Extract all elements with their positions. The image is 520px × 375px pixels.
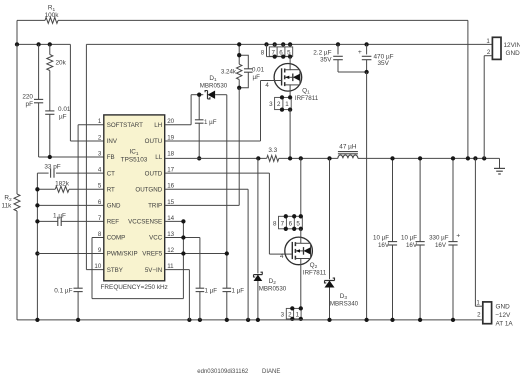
- wire: input cap return drop: [366, 72, 368, 320]
- svg-text:17: 17: [167, 167, 174, 174]
- svg-text:8: 8: [98, 231, 102, 238]
- svg-text:2: 2: [487, 49, 491, 56]
- svg-text:IRF7811: IRF7811: [303, 270, 327, 277]
- wire: 12VIN pin 2 to GND line: [484, 56, 492, 159]
- capacitor 2.2 uF 35V: [313, 44, 366, 72]
- svg-text:4: 4: [280, 253, 284, 260]
- svg-text:REF: REF: [107, 219, 120, 226]
- svg-text:6: 6: [98, 199, 102, 206]
- svg-text:1: 1: [486, 38, 490, 45]
- svg-text:OUTU: OUTU: [145, 138, 163, 145]
- svg-text:OUTD: OUTD: [145, 170, 163, 177]
- svg-text:1 µF: 1 µF: [232, 288, 245, 295]
- svg-text:VREF5: VREF5: [142, 251, 163, 258]
- IC1 left pin numbers: [94, 118, 101, 270]
- svg-text:DIANE: DIANE: [262, 369, 280, 375]
- svg-text:LH: LH: [154, 122, 162, 129]
- junction dot TRIP network bottom: [237, 86, 241, 90]
- junction dot input cap return: [364, 70, 368, 74]
- svg-text:13: 13: [167, 231, 174, 238]
- svg-text:LL: LL: [155, 154, 162, 161]
- capacitor 33 pF (CT): [37, 164, 103, 178]
- svg-text:OUTGND: OUTGND: [135, 187, 162, 194]
- junction dots on 12V rail: [237, 42, 369, 46]
- wire: switch node to Q2 drain: [300, 158, 302, 216]
- svg-text:−12V: −12V: [495, 312, 511, 319]
- svg-text:µF: µF: [253, 74, 261, 81]
- junction dot TRIP network top: [237, 53, 241, 57]
- svg-text:9: 9: [98, 247, 102, 254]
- svg-text:+: +: [358, 49, 362, 56]
- svg-text:20: 20: [167, 118, 174, 125]
- wire: VREF5 line: [165, 253, 227, 255]
- Q1 drain junction dots: [273, 54, 293, 58]
- wire: FB line: [39, 156, 104, 158]
- wire: STBY to 12V rail: [86, 44, 103, 269]
- junction dots analog ground: [35, 187, 39, 256]
- svg-text:100k: 100k: [45, 12, 60, 19]
- wire: PWM/SKIP line: [37, 253, 103, 255]
- svg-text:3.3: 3.3: [268, 147, 277, 154]
- Q2 pin number boxes 8 7 6 5: [273, 216, 302, 229]
- svg-text:8: 8: [261, 49, 265, 56]
- svg-text:MBR0530: MBR0530: [259, 285, 287, 292]
- Q2 drain lead: [300, 229, 302, 237]
- svg-text:330 µF: 330 µF: [429, 235, 449, 242]
- Q1 pin number boxes 3 2 1: [269, 97, 291, 109]
- svg-text:AT 1A: AT 1A: [496, 321, 514, 328]
- wire: GND pin line: [37, 204, 103, 206]
- capacitor 10 uF 16V (second): [401, 158, 425, 320]
- IC1 frequency note: [101, 284, 168, 291]
- svg-text:1: 1: [476, 300, 480, 307]
- svg-text:GND: GND: [496, 304, 511, 311]
- wire: COMP to VREF5 net: [92, 221, 183, 298]
- svg-text:edn030109di31162: edn030109di31162: [197, 369, 249, 375]
- Q1 pin number boxes 8 7 6 5: [261, 47, 293, 56]
- Q2 gate pin number 4: [280, 253, 284, 260]
- svg-text:IRF7811: IRF7811: [295, 95, 319, 102]
- junction dots on -12V rail: [35, 318, 455, 322]
- wire: -12V sense line from output to R1: [17, 20, 468, 158]
- svg-text:CT: CT: [107, 170, 115, 177]
- capacitor 0.1 uF (softstart): [54, 287, 82, 320]
- svg-text:10 µF: 10 µF: [401, 235, 417, 242]
- wire: VREF5 decoupling drop: [226, 254, 228, 289]
- junction dot FB/0.01uF: [48, 155, 52, 159]
- svg-text:15: 15: [167, 199, 174, 206]
- svg-text:182k: 182k: [55, 181, 70, 188]
- svg-text:3.24k: 3.24k: [221, 69, 237, 76]
- svg-text:20k: 20k: [56, 60, 67, 67]
- svg-text:COMP: COMP: [107, 235, 126, 242]
- svg-text:1: 1: [285, 101, 289, 108]
- svg-text:PWM/SKIP: PWM/SKIP: [107, 251, 138, 258]
- svg-text:5: 5: [296, 220, 300, 227]
- junction dots VCCSENSE/VCC/VREF5 tie: [181, 219, 229, 255]
- resistor 182k (RT): [37, 181, 103, 193]
- resistor 3.3: [267, 147, 279, 161]
- svg-text:STBY: STBY: [107, 267, 123, 274]
- connector J2 output GND/-12V: [476, 300, 513, 328]
- resistor R1 100k: [45, 5, 60, 24]
- junction dots on GND line: [390, 156, 486, 160]
- svg-text:pF: pF: [26, 101, 34, 108]
- Q1 gate pin number 4: [265, 82, 269, 89]
- svg-text:VCCSENSE: VCCSENSE: [128, 219, 162, 226]
- svg-text:5V−IN: 5V−IN: [145, 267, 162, 274]
- svg-text:35V: 35V: [320, 57, 332, 64]
- IC1 TPS5103 body: [104, 115, 165, 281]
- capacitor 1 uF (REF): [37, 213, 103, 227]
- capacitor 220 pF: [22, 44, 43, 157]
- svg-text:MBRS340: MBRS340: [330, 300, 359, 307]
- svg-text:2: 2: [277, 101, 281, 108]
- Q2 pin number boxes 3 2 1: [281, 308, 301, 319]
- svg-text:4: 4: [265, 82, 269, 89]
- junction dots on INV node rail: [15, 42, 52, 46]
- Q2 source junction dots: [290, 306, 303, 321]
- wire: analog ground vertical: [36, 173, 38, 320]
- svg-text:12VIN: 12VIN: [504, 42, 520, 49]
- svg-text:19: 19: [167, 134, 174, 141]
- wire: INV node rail: [17, 44, 104, 141]
- svg-text:MBR0530: MBR0530: [200, 82, 228, 89]
- svg-text:5: 5: [98, 183, 102, 190]
- wire: 12V input rail: [86, 43, 492, 45]
- inductor 47 uH: [338, 143, 358, 158]
- transistor Q1 IRF7811 pin stubs top: [267, 44, 291, 56]
- svg-text:16V: 16V: [435, 242, 447, 249]
- svg-text:GND: GND: [107, 203, 121, 210]
- wire: LH bootstrap node: [165, 95, 204, 125]
- svg-text:220: 220: [22, 94, 33, 101]
- svg-text:14: 14: [167, 215, 174, 222]
- svg-text:7: 7: [98, 215, 102, 222]
- capacitor 470 uF 35V polarized: [358, 44, 394, 72]
- svg-text:0.01: 0.01: [252, 67, 265, 74]
- wire: D1 anode to VREF5: [226, 95, 228, 254]
- wire: VCC decoupling: [165, 238, 200, 289]
- resistor 20k: [47, 44, 67, 111]
- svg-text:1 µF: 1 µF: [53, 213, 66, 220]
- svg-text:GND: GND: [506, 50, 520, 57]
- svg-text:47 µH: 47 µH: [339, 143, 357, 150]
- svg-text:TPS5103: TPS5103: [121, 157, 148, 164]
- Q1 drain lead: [289, 57, 291, 64]
- wire: 5V-IN to -12V rail: [165, 270, 190, 320]
- wire: TRIP line: [165, 88, 240, 206]
- IC1 left pin labels: [107, 122, 143, 274]
- svg-text:16V: 16V: [406, 242, 418, 249]
- svg-text:11k: 11k: [2, 203, 13, 210]
- resistor R2 11k: [2, 44, 21, 320]
- diode D3 MBRS340: [325, 158, 359, 320]
- capacitor 1 uF (VCC): [196, 288, 218, 320]
- svg-text:16V: 16V: [378, 242, 390, 249]
- svg-text:11: 11: [167, 263, 174, 270]
- svg-text:VCC: VCC: [149, 235, 163, 242]
- svg-text:+: +: [456, 233, 460, 240]
- svg-text:1 µF: 1 µF: [205, 288, 218, 295]
- svg-text:INV: INV: [107, 138, 118, 145]
- capacitor 330 uF 16V polarized: [429, 158, 460, 320]
- svg-text:8: 8: [273, 220, 277, 227]
- diode D2 MBR0530: [254, 158, 287, 320]
- wire: OUTU to Q1 gate: [165, 81, 275, 142]
- svg-text:SOFTSTART: SOFTSTART: [107, 122, 143, 129]
- IC1 right pin labels: [128, 122, 163, 274]
- svg-text:6: 6: [289, 220, 293, 227]
- svg-text:FB: FB: [107, 154, 115, 161]
- capacitor 0.01 uF (FB): [45, 106, 71, 157]
- svg-text:10: 10: [94, 263, 101, 270]
- svg-text:3: 3: [269, 101, 273, 108]
- svg-text:1 µF: 1 µF: [204, 119, 217, 126]
- wire: Q1 source to switch node: [289, 110, 291, 159]
- wire: LL / switch node line: [165, 157, 500, 159]
- earth ground symbol: [494, 158, 505, 174]
- svg-text:7: 7: [281, 220, 285, 227]
- Q1 source lead: [289, 91, 291, 97]
- svg-text:16: 16: [167, 183, 174, 190]
- svg-text:0.01: 0.01: [58, 106, 71, 113]
- connector J1 12VIN: [486, 37, 520, 59]
- svg-text:µF: µF: [59, 114, 67, 121]
- svg-text:0.1 µF: 0.1 µF: [54, 287, 72, 294]
- svg-text:2: 2: [477, 312, 481, 319]
- transistor Q1 IRF7811: [274, 64, 319, 103]
- title text: [197, 369, 280, 375]
- svg-text:2: 2: [98, 134, 102, 141]
- svg-text:10 µF: 10 µF: [373, 235, 389, 242]
- svg-text:12: 12: [167, 247, 174, 254]
- wire: output connector pin 1 to GND line: [475, 158, 482, 306]
- svg-text:1: 1: [98, 118, 102, 125]
- svg-text:4: 4: [98, 167, 102, 174]
- svg-text:FREQUENCY=250 kHz: FREQUENCY=250 kHz: [101, 284, 168, 291]
- resistor 3.24k and capacitor 0.01 uF (TRIP network): [221, 44, 265, 87]
- svg-text:33 pF: 33 pF: [44, 164, 60, 171]
- svg-text:1: 1: [296, 311, 300, 318]
- capacitor 10 uF 16V (first): [373, 158, 397, 320]
- junction dot bootstrap bottom on LL line: [197, 156, 201, 160]
- svg-text:35V: 35V: [378, 60, 390, 67]
- svg-text:18: 18: [167, 150, 174, 157]
- wire: SOFTSTART line: [78, 125, 104, 288]
- diode D1 MBR0530: [200, 75, 228, 99]
- transistor Q2 IRF7811: [285, 237, 327, 276]
- capacitor 1 uF bootstrap: [195, 95, 217, 159]
- svg-text:RT: RT: [107, 187, 115, 194]
- junction dot bootstrap top: [197, 93, 201, 97]
- wire: VCCSENSE line: [165, 220, 184, 222]
- svg-text:3: 3: [98, 150, 102, 157]
- svg-text:TRIP: TRIP: [148, 203, 162, 210]
- IC1 right pin numbers: [167, 118, 174, 270]
- svg-text:3: 3: [281, 311, 285, 318]
- capacitor 1 uF (VREF5): [223, 288, 245, 320]
- wire: OUTD to Q2 gate: [165, 173, 285, 254]
- Q2 drain junction dots: [284, 214, 303, 231]
- wire: OUTGND to -12V rail: [165, 189, 248, 320]
- Q2 source lead: [300, 265, 302, 309]
- junction dots on switch node line: [256, 156, 332, 160]
- Q1 source junction dots: [280, 95, 292, 112]
- wire: -12V output rail: [17, 319, 483, 321]
